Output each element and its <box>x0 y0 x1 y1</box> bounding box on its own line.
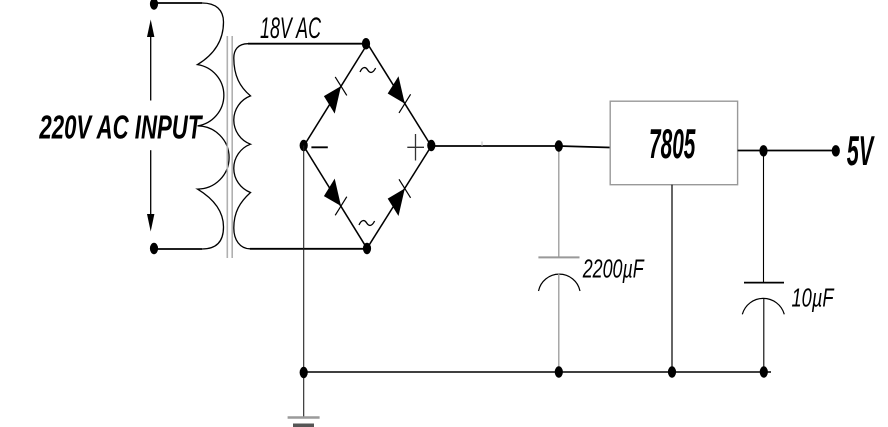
svg-text:220V AC INPUT: 220V AC INPUT <box>39 109 204 146</box>
svg-text:10µF: 10µF <box>792 283 835 313</box>
svg-text:7805: 7805 <box>649 120 696 167</box>
svg-text:5V: 5V <box>847 127 875 174</box>
svg-text:18V AC: 18V AC <box>260 12 321 45</box>
svg-text:2200µF: 2200µF <box>582 254 645 284</box>
